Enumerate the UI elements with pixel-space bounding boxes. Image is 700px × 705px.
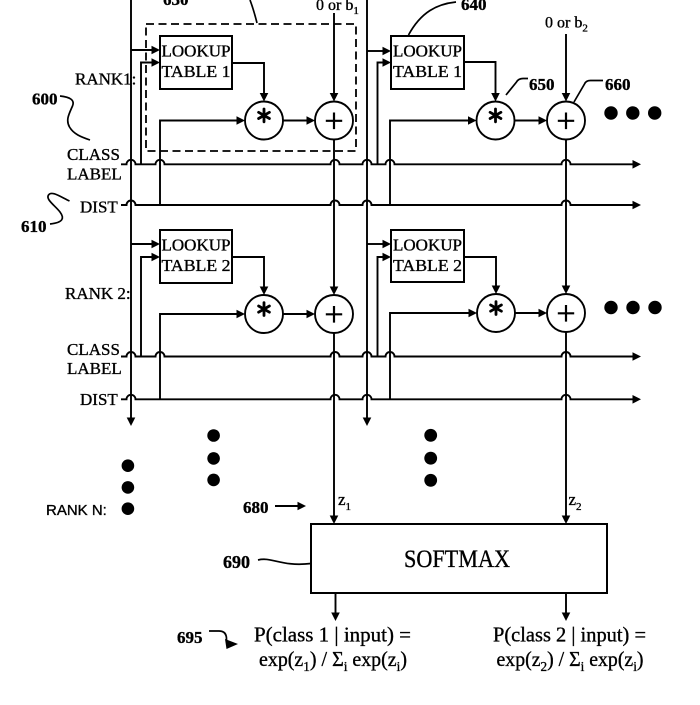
svg-text:P(class 1 | input) =: P(class 1 | input) = xyxy=(254,623,411,647)
svg-text:640: 640 xyxy=(461,0,487,14)
arrowhead into A3 top xyxy=(330,287,339,296)
arrowhead z1 into softmax xyxy=(330,516,339,525)
arrowhead into M2 top xyxy=(491,93,500,102)
lookup table 1 (rank 1, col 2) box xyxy=(391,36,464,89)
plus glyph A1 xyxy=(326,113,342,130)
ellipsis dots rank2 right xyxy=(604,301,617,314)
wire V1 branch to lookup table 1 rank1 xyxy=(131,49,152,51)
arrowhead into LT1 r1c1 input2 xyxy=(152,58,161,67)
svg-text:DIST: DIST xyxy=(80,198,118,217)
svg-text:exp(z2) / Σi exp(zi): exp(z2) / Σi exp(zi) xyxy=(497,647,644,675)
arrowhead into A2 top xyxy=(562,93,571,102)
svg-text:CLASS: CLASS xyxy=(67,145,120,164)
wire class label row 1 xyxy=(121,160,633,165)
arrowhead into M1 top xyxy=(260,93,269,102)
svg-text:695: 695 xyxy=(177,628,203,647)
lookup table 1 (rank 1, col 1) box xyxy=(160,36,232,89)
arrowhead into M4 top xyxy=(492,286,501,295)
svg-text:CLASS: CLASS xyxy=(67,340,120,359)
pointer arrow label 680 xyxy=(275,505,298,507)
multiplier circle M3 (rank2 col1) xyxy=(245,295,283,333)
wire class label row 2 xyxy=(121,352,633,357)
wire V5 branch to lookup table 1 rank1 col2 xyxy=(367,50,383,52)
plus glyph A4 xyxy=(558,305,574,322)
wire V5 branch to lookup table 2 rank2 col2 xyxy=(367,243,383,245)
wire z2 adder4 to softmax xyxy=(565,332,567,516)
pointer curve label 640 xyxy=(409,2,457,35)
svg-text:exp(z1) / Σi exp(zi): exp(z1) / Σi exp(zi) xyxy=(259,647,407,675)
svg-text:RANK N:: RANK N: xyxy=(46,502,107,519)
softmax box xyxy=(311,524,607,593)
wire class riser rank2 col2 xyxy=(378,257,384,357)
svg-text:690: 690 xyxy=(223,552,250,572)
arrowhead 695 pointer xyxy=(225,639,238,649)
multiplier circle M2 (rank1 col2) xyxy=(477,102,515,140)
wire V1 input bus left xyxy=(130,0,132,418)
arrowhead into M2 left xyxy=(468,116,477,125)
svg-text:LABEL: LABEL xyxy=(67,165,122,184)
arrowhead into A4 top xyxy=(562,286,571,295)
wire lookup table 1 rank1 col2 output elbow xyxy=(464,62,496,94)
arrowhead into LT1 r1c1 input1 xyxy=(152,46,161,55)
svg-text:z1: z1 xyxy=(338,490,351,513)
svg-text:600: 600 xyxy=(32,90,58,109)
wire M1 to A1 xyxy=(283,120,307,122)
svg-text:RANK1:: RANK1: xyxy=(75,70,136,89)
arrowhead class row2 end xyxy=(633,352,642,361)
vertical dots column B xyxy=(207,429,220,442)
vertical dots column A xyxy=(122,459,135,472)
wire dist riser rank1 col2 xyxy=(390,121,469,206)
wire z2 bias input "0 or b2" xyxy=(565,34,567,94)
svg-text:LOOKUP: LOOKUP xyxy=(162,42,231,61)
wire z1 adder3 to softmax xyxy=(333,333,335,516)
arrowhead into M3 left xyxy=(237,310,246,319)
lookup table 2 (rank 2, col 1) box xyxy=(160,230,232,283)
wire dist riser rank2 col1 xyxy=(160,314,237,399)
wire class riser rank1 col1 xyxy=(141,63,152,165)
wire M3 to A3 xyxy=(283,313,307,315)
arrowhead softmax output1 xyxy=(331,613,340,622)
svg-text:LOOKUP: LOOKUP xyxy=(393,236,462,255)
svg-text:SOFTMAX: SOFTMAX xyxy=(404,546,510,573)
asterisk glyph M2 xyxy=(490,109,501,122)
ellipsis dots rank1 right xyxy=(604,106,617,119)
arrowhead dist row1 end xyxy=(633,201,642,210)
wire softmax output 2 xyxy=(565,593,567,613)
svg-text:LABEL: LABEL xyxy=(67,359,122,378)
asterisk glyph M4 xyxy=(491,302,502,315)
pointer curve label 600 xyxy=(60,96,90,140)
adder circle A1 (rank1 col1) xyxy=(315,102,353,140)
wire V1 branch to lookup table 2 rank2 xyxy=(131,243,152,245)
plus glyph A2 xyxy=(558,113,574,130)
arrowhead into A1 left xyxy=(307,116,316,125)
svg-text:630: 630 xyxy=(163,0,189,9)
arrowhead V5 bottom xyxy=(363,418,372,427)
wire z1 bias input "0 or b1" xyxy=(333,13,335,94)
arrowhead V1 bottom xyxy=(127,418,136,427)
wire V5 input bus col2 xyxy=(366,0,368,418)
arrowhead into M3 top xyxy=(260,287,269,296)
arrowhead 680 pointer xyxy=(298,502,307,511)
arrowhead into A4 left xyxy=(539,309,548,318)
arrowhead dist row2 end xyxy=(633,395,642,404)
pointer line label 650 xyxy=(506,79,528,96)
wire lookup table 2 rank2 col2 output elbow xyxy=(464,257,496,286)
svg-text:0 or b2: 0 or b2 xyxy=(545,15,588,35)
arrowhead softmax output2 xyxy=(562,613,571,622)
pointer curve label 630 xyxy=(250,0,257,23)
wire dist row 1 xyxy=(121,201,633,206)
wire softmax output 1 xyxy=(335,593,337,613)
arrowhead into M1 left xyxy=(237,116,246,125)
wire M2 to A2 xyxy=(515,120,540,122)
wire z2 adder2 to adder4 xyxy=(565,140,567,287)
multiplier circle M1 (rank1 col1) xyxy=(245,102,283,140)
wire z1 adder1 to adder3 xyxy=(333,140,335,288)
arrowhead into LT1 r1c2 input1 xyxy=(383,47,392,56)
arrowhead z2 into softmax xyxy=(562,516,571,525)
arrowhead into A2 left xyxy=(539,116,548,125)
svg-text:z2: z2 xyxy=(569,490,582,513)
arrowhead into A3 left xyxy=(307,310,316,319)
arrowhead into LT2 r2c2 input1 xyxy=(383,240,392,249)
wire lookup table 1 rank1 col1 output elbow xyxy=(232,63,264,94)
arrowhead into M4 left xyxy=(469,309,478,318)
wire lookup table 2 rank2 col1 output elbow xyxy=(232,257,264,287)
svg-text:680: 680 xyxy=(243,498,269,517)
pointer curve label 610 xyxy=(48,193,70,224)
svg-text:TABLE 1: TABLE 1 xyxy=(162,62,231,81)
wire class riser rank1 col2 xyxy=(378,63,384,165)
adder circle A4 (rank2 col2) xyxy=(547,294,585,332)
asterisk glyph M3 xyxy=(259,303,270,316)
wire dist row 2 xyxy=(121,395,633,400)
arrowhead into LT2 r2c1 input2 xyxy=(152,253,161,262)
pointer hook label 695 xyxy=(209,631,227,641)
svg-text:TABLE 1: TABLE 1 xyxy=(393,62,462,81)
pointer line label 660 xyxy=(574,81,603,103)
arrowhead into A1 top xyxy=(330,93,339,102)
svg-text:DIST: DIST xyxy=(80,390,118,409)
wire dist riser rank2 col2 xyxy=(390,313,469,399)
svg-text:0 or b1: 0 or b1 xyxy=(316,0,359,17)
svg-text:660: 660 xyxy=(605,75,631,94)
arrowhead into LT1 r1c2 input2 xyxy=(383,58,392,67)
arrowhead into LT2 r2c2 input2 xyxy=(383,253,392,262)
svg-text:LOOKUP: LOOKUP xyxy=(162,236,231,255)
svg-text:TABLE 2: TABLE 2 xyxy=(393,256,462,275)
arrowhead into LT2 r2c1 input1 xyxy=(152,240,161,249)
adder circle A2 (rank1 col2) xyxy=(547,102,585,140)
wire M4 to A4 xyxy=(515,312,539,314)
multiplier circle M4 (rank2 col2) xyxy=(477,294,515,332)
pointer curve label 690 xyxy=(258,559,311,564)
wire class riser rank2 col1 xyxy=(141,257,152,357)
svg-text:LOOKUP: LOOKUP xyxy=(393,42,462,61)
svg-text:TABLE 2: TABLE 2 xyxy=(162,256,231,275)
plus glyph A3 xyxy=(326,306,342,323)
asterisk glyph M1 xyxy=(259,109,270,122)
wire dist riser rank1 col1 xyxy=(160,121,237,206)
svg-text:610: 610 xyxy=(21,217,47,236)
vertical dots column C xyxy=(424,429,437,442)
arrowhead class row1 end xyxy=(633,160,642,169)
adder circle A3 (rank2 col1) xyxy=(315,295,353,333)
svg-text:RANK 2:: RANK 2: xyxy=(65,284,131,303)
lookup table 2 (rank 2, col 2) box xyxy=(391,230,464,282)
dashed box 630 xyxy=(146,24,356,151)
svg-text:650: 650 xyxy=(529,75,555,94)
svg-text:P(class 2 | input) =: P(class 2 | input) = xyxy=(493,623,646,647)
